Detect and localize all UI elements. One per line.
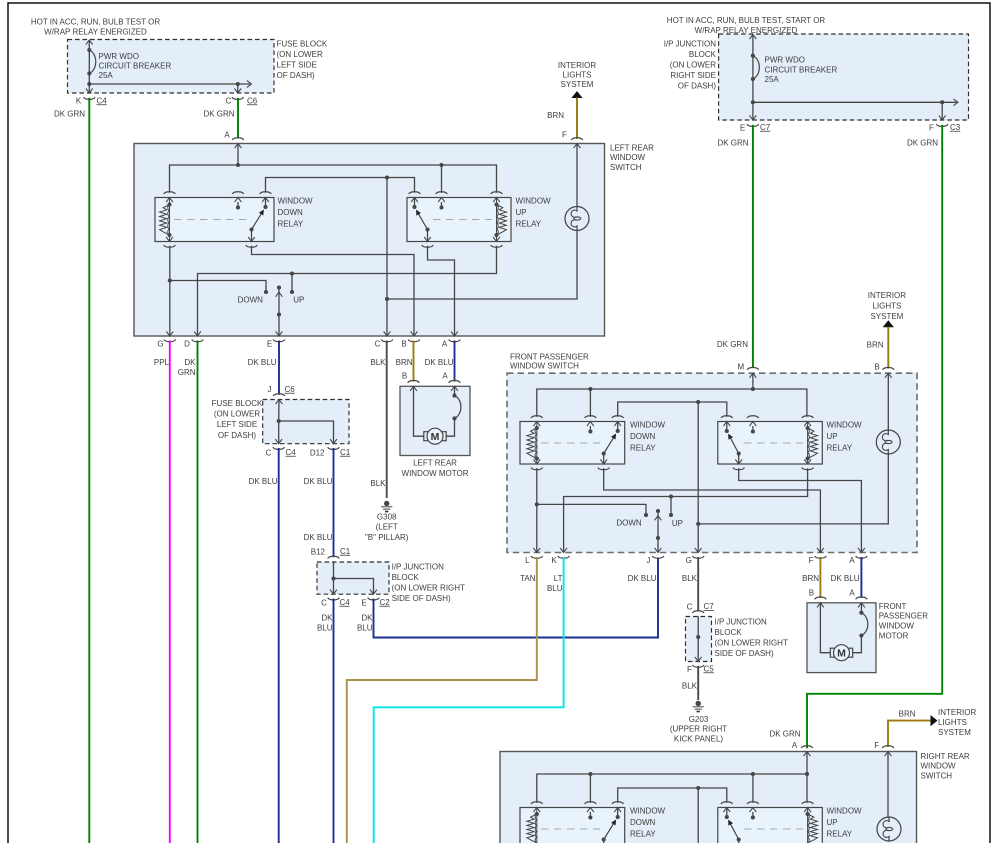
svg-text:E: E bbox=[267, 340, 272, 349]
svg-text:LEFT SIDE: LEFT SIDE bbox=[277, 60, 317, 69]
svg-text:DK BLU: DK BLU bbox=[249, 477, 278, 486]
svg-text:DK BLU: DK BLU bbox=[304, 533, 333, 542]
fuse block (top left, dashed) bbox=[68, 40, 275, 94]
relay pin switch-bottom (left rear up) bbox=[422, 230, 434, 248]
svg-text:B: B bbox=[809, 589, 814, 598]
svg-text:RELAY: RELAY bbox=[827, 829, 853, 838]
relay pin switch-bottom (front passenger down) bbox=[598, 454, 610, 470]
node DOWN feed tap (left rear) bbox=[168, 278, 266, 292]
svg-text:DK BLU: DK BLU bbox=[248, 358, 277, 367]
pin E (left rear switch bottom) bbox=[267, 331, 285, 348]
relay pin switch-bottom (right rear up) bbox=[738, 840, 740, 843]
breaker value label PWR WDO CIRCUIT BREAKER 25A (right) bbox=[765, 55, 838, 84]
svg-text:PWR WDO: PWR WDO bbox=[765, 55, 805, 64]
wire motor B side (left rear) bbox=[414, 386, 425, 436]
svg-text:DK: DK bbox=[321, 613, 333, 622]
svg-text:RIGHT REAR: RIGHT REAR bbox=[921, 752, 970, 761]
wire DK BLU C4 to page bottom bbox=[249, 448, 279, 843]
svg-text:(ON LOWER RIGHT: (ON LOWER RIGHT bbox=[392, 583, 465, 592]
svg-text:A: A bbox=[849, 556, 855, 565]
wire drop to connector C3 bbox=[939, 102, 946, 120]
svg-text:C4: C4 bbox=[97, 96, 108, 105]
pin F (front passenger switch bottom) bbox=[808, 548, 826, 565]
window down relay label (right rear) bbox=[630, 806, 666, 838]
connector C7 pin C (junction right top) bbox=[687, 602, 715, 621]
relay pin coil-top (front passenger down) bbox=[531, 416, 543, 426]
svg-text:FUSE BLOCK: FUSE BLOCK bbox=[212, 399, 263, 408]
wire drop to connector C7 bbox=[750, 102, 757, 120]
svg-text:DOWN: DOWN bbox=[630, 432, 656, 441]
svg-text:(ON LOWER: (ON LOWER bbox=[277, 50, 323, 59]
svg-text:WINDOW: WINDOW bbox=[827, 806, 863, 815]
motor M front passenger bbox=[830, 645, 852, 661]
relay coil (front passenger down) bbox=[527, 422, 539, 465]
contact DOWN (front passenger) bbox=[616, 513, 648, 527]
breaker value label PWR WDO CIRCUIT BREAKER 25A (left) bbox=[99, 52, 172, 80]
relay pin middle (right rear up) bbox=[747, 802, 759, 820]
svg-text:RELAY: RELAY bbox=[630, 443, 656, 452]
svg-text:E: E bbox=[361, 598, 366, 607]
I/P junction block (top right, dashed) bbox=[719, 34, 969, 120]
relay pin coil-top (left rear down) bbox=[164, 192, 176, 202]
svg-text:A: A bbox=[849, 589, 855, 598]
wire DK BLU D12/C1 to junction block bbox=[304, 448, 334, 557]
relay switch arm (right rear up) bbox=[725, 815, 741, 842]
svg-text:RIGHT SIDE: RIGHT SIDE bbox=[670, 71, 716, 80]
svg-text:BRN: BRN bbox=[547, 111, 564, 120]
pin G (left rear switch bottom) bbox=[157, 331, 175, 348]
svg-text:25A: 25A bbox=[765, 75, 780, 84]
svg-text:RELAY: RELAY bbox=[516, 219, 542, 228]
svg-text:BLOCK: BLOCK bbox=[689, 50, 717, 59]
wire drop to connector C4 bbox=[86, 84, 93, 93]
hot feed label (top left) bbox=[31, 17, 161, 36]
svg-text:C4: C4 bbox=[340, 598, 351, 607]
wire BRN pin B to motor bbox=[396, 341, 414, 382]
circuit breaker PWR WDO 25A (right) bbox=[751, 54, 759, 105]
wire down-switch to pin F (front passenger) bbox=[604, 468, 821, 552]
svg-text:LEFT REAR: LEFT REAR bbox=[413, 458, 457, 467]
wire drop to C4 exit (junction middle) bbox=[330, 579, 337, 595]
motor pin A (front passenger) bbox=[849, 589, 867, 608]
svg-text:SYSTEM: SYSTEM bbox=[870, 312, 903, 321]
pin L (front passenger switch bottom) bbox=[525, 548, 543, 565]
svg-text:SWITCH: SWITCH bbox=[610, 163, 642, 172]
connector C2 pin E (junction middle bottom) bbox=[361, 598, 390, 608]
relay switch arm (front passenger down) bbox=[602, 429, 620, 456]
svg-text:L: L bbox=[525, 556, 530, 565]
relay pin switch-top (right rear up) bbox=[721, 802, 733, 817]
bus wire switch commons (right rear) bbox=[618, 788, 727, 803]
wire LT BLU pin K to page bottom bbox=[374, 557, 564, 843]
wire BLK C5 to ground G203 bbox=[682, 666, 698, 700]
svg-text:DOWN: DOWN bbox=[238, 295, 264, 304]
svg-text:UP: UP bbox=[827, 818, 838, 827]
node bus2 tap to pin C (left rear) bbox=[385, 175, 389, 336]
svg-text:F: F bbox=[929, 123, 934, 132]
node feed junction at C3 drop bbox=[940, 100, 944, 104]
svg-text:C1: C1 bbox=[340, 448, 351, 457]
wire DK BLU junction C4 to page bottom bbox=[317, 599, 334, 843]
wire BRN pin F to motor bbox=[802, 557, 820, 598]
svg-text:E: E bbox=[740, 123, 745, 132]
svg-text:C: C bbox=[375, 340, 381, 349]
svg-text:GRN: GRN bbox=[178, 368, 196, 377]
svg-text:UP: UP bbox=[516, 208, 527, 217]
svg-text:DK GRN: DK GRN bbox=[203, 109, 234, 118]
pin D (left rear switch bottom) bbox=[184, 331, 203, 348]
svg-text:SIDE OF DASH): SIDE OF DASH) bbox=[392, 594, 451, 603]
node junction block tap (middle) bbox=[331, 576, 376, 594]
svg-text:LT: LT bbox=[554, 574, 563, 583]
svg-text:LIGHTS: LIGHTS bbox=[563, 70, 592, 79]
svg-text:DOWN: DOWN bbox=[630, 818, 656, 827]
wire DK BLU C2 to front passenger pin J bbox=[357, 558, 658, 638]
pin M (front passenger top) bbox=[717, 340, 759, 389]
svg-text:TAN: TAN bbox=[520, 574, 536, 583]
svg-text:F: F bbox=[562, 131, 567, 140]
window up relay box (left rear) bbox=[407, 198, 511, 242]
svg-text:WINDOW: WINDOW bbox=[610, 153, 646, 162]
relay pin coil-bottom (left rear up) bbox=[491, 237, 503, 247]
relay pin middle (right rear down) bbox=[585, 802, 597, 820]
svg-text:G203: G203 bbox=[689, 715, 709, 724]
svg-text:BLOCK: BLOCK bbox=[392, 573, 420, 582]
wire BLK pin C to ground G308 bbox=[370, 341, 386, 499]
relay pin switch-top (front passenger down) bbox=[612, 416, 624, 431]
svg-text:PASSENGER: PASSENGER bbox=[879, 612, 928, 621]
svg-text:A: A bbox=[442, 340, 448, 349]
motor pin A (left rear) bbox=[442, 372, 460, 391]
window down relay box (front passenger) bbox=[520, 422, 625, 465]
svg-text:J: J bbox=[647, 556, 651, 565]
svg-text:C: C bbox=[266, 448, 272, 457]
node lamp tap on pin G wire (front passenger) bbox=[696, 522, 700, 526]
relay mech link (front passenger down) bbox=[541, 442, 600, 444]
relay mech link (left rear up) bbox=[433, 219, 492, 221]
svg-text:G: G bbox=[686, 556, 692, 565]
pin A (right rear switch top) bbox=[792, 741, 813, 774]
svg-text:LIGHTS: LIGHTS bbox=[872, 301, 901, 310]
node UP contact tap (left rear) bbox=[290, 271, 294, 292]
bus wire switch commons (left rear) bbox=[266, 178, 415, 193]
svg-text:25A: 25A bbox=[99, 71, 114, 80]
relay pin switch-bottom (front passenger up) bbox=[733, 454, 745, 470]
svg-text:LIGHTS: LIGHTS bbox=[938, 718, 967, 727]
relay coil (front passenger up) bbox=[806, 422, 818, 465]
relay pin middle (left rear up) bbox=[436, 192, 448, 210]
wire up-switch to pin A (left rear) bbox=[428, 246, 455, 336]
relay switch arm (front passenger up) bbox=[725, 429, 741, 456]
svg-text:INTERIOR: INTERIOR bbox=[558, 61, 596, 70]
left rear window motor label bbox=[402, 458, 469, 478]
pin J (front passenger switch bottom) bbox=[647, 548, 664, 565]
pin F (left rear switch top) bbox=[562, 131, 583, 208]
bus wire switch commons (front passenger) bbox=[618, 402, 727, 417]
relay pin middle (front passenger up) bbox=[747, 416, 759, 434]
svg-text:OF DASH): OF DASH) bbox=[678, 81, 717, 90]
svg-text:UP: UP bbox=[827, 432, 838, 441]
wire BRN pin B to interior lights (middle) bbox=[867, 320, 894, 368]
wire inside fuse block bbox=[278, 400, 280, 422]
svg-text:HOT IN ACC, RUN, BULB TEST OR: HOT IN ACC, RUN, BULB TEST OR bbox=[31, 17, 161, 26]
bus wire coil feed (left rear) bbox=[170, 165, 497, 193]
svg-text:C7: C7 bbox=[760, 123, 771, 132]
feed arrow into breaker (right) bbox=[750, 35, 757, 103]
relay coil (right rear down) bbox=[527, 808, 539, 843]
wire down-coil to pin L (front passenger) bbox=[536, 468, 538, 552]
pin C (left rear switch bottom) bbox=[375, 331, 393, 348]
right rear window switch label bbox=[921, 752, 970, 780]
connector C1 pin D12 (fuse block bottom) bbox=[310, 447, 351, 457]
svg-text:BRN: BRN bbox=[396, 358, 413, 367]
svg-text:"B" PILLAR): "B" PILLAR) bbox=[365, 533, 409, 542]
svg-text:C5: C5 bbox=[704, 664, 715, 673]
wire down-coil to pin G (left rear) bbox=[169, 246, 171, 336]
relay mech link (left rear down) bbox=[174, 219, 248, 221]
node bus2 tap to pin G (right rear) bbox=[696, 786, 700, 843]
relay coil (left rear down) bbox=[160, 198, 172, 242]
wire lamp bottom to pin C vertical (left rear) bbox=[387, 230, 577, 300]
svg-text:RELAY: RELAY bbox=[630, 829, 656, 838]
svg-text:F: F bbox=[808, 556, 813, 565]
connector C6 pin C bbox=[226, 96, 258, 105]
wire PPL pin G to page bottom bbox=[154, 341, 170, 843]
svg-text:C6: C6 bbox=[247, 96, 258, 105]
connector C7 pin E bbox=[740, 123, 771, 133]
node bus2 tap to pin G (front passenger) bbox=[696, 400, 700, 553]
relay pin coil-top (right rear up) bbox=[802, 802, 814, 812]
window up relay label (front passenger) bbox=[827, 420, 863, 452]
pin K (front passenger switch bottom) bbox=[551, 548, 569, 565]
wire up-switch to pin A (front passenger) bbox=[739, 468, 862, 552]
down/up switch arm (left rear) bbox=[276, 285, 283, 336]
svg-text:C4: C4 bbox=[286, 448, 297, 457]
svg-text:C: C bbox=[321, 598, 327, 607]
svg-text:A: A bbox=[224, 131, 230, 140]
svg-text:BLK: BLK bbox=[370, 479, 386, 488]
svg-text:BLU: BLU bbox=[547, 584, 563, 593]
svg-text:BRN: BRN bbox=[867, 341, 884, 350]
left rear window switch label bbox=[610, 143, 654, 171]
feed arrow into breaker bbox=[86, 40, 93, 84]
svg-text:A: A bbox=[792, 741, 798, 750]
svg-text:DOWN: DOWN bbox=[616, 518, 642, 527]
wire DK BLU pin J label bbox=[628, 574, 657, 583]
svg-text:BLU: BLU bbox=[317, 623, 333, 632]
ground G308 bbox=[365, 501, 409, 542]
svg-text:B: B bbox=[401, 340, 406, 349]
wire lamp bottom to pin G vertical (front passenger) bbox=[698, 453, 888, 524]
svg-text:J: J bbox=[268, 385, 272, 394]
svg-text:DOWN: DOWN bbox=[278, 208, 304, 217]
wire breaker output to C6 (feed bus) bbox=[89, 81, 251, 88]
connector C4 pin K bbox=[76, 96, 107, 105]
svg-text:DK GRN: DK GRN bbox=[769, 730, 800, 739]
svg-text:D: D bbox=[184, 340, 190, 349]
relay switch arm (left rear down) bbox=[249, 205, 267, 232]
svg-text:CIRCUIT BREAKER: CIRCUIT BREAKER bbox=[99, 61, 172, 70]
I/P junction block (right, dashed) bbox=[686, 617, 712, 662]
svg-text:C: C bbox=[226, 97, 232, 106]
svg-text:C3: C3 bbox=[950, 123, 961, 132]
wire BRN pin F to interior lights (right) bbox=[888, 710, 938, 747]
node bus1 x down relay middle (front passenger) bbox=[588, 387, 592, 417]
svg-text:(ON LOWER: (ON LOWER bbox=[214, 409, 260, 418]
relay pin coil-top (right rear down) bbox=[531, 802, 543, 812]
wire DK GRN C4 to page bottom bbox=[54, 98, 89, 843]
svg-text:WINDOW: WINDOW bbox=[516, 196, 552, 205]
svg-text:B: B bbox=[402, 372, 407, 381]
wire down-switch to pin B (left rear) bbox=[252, 246, 415, 336]
motor thermal breaker (front passenger) bbox=[859, 611, 867, 638]
wire breaker output to C3 (feed bus right) bbox=[753, 99, 958, 106]
svg-text:I/P JUNCTION: I/P JUNCTION bbox=[715, 617, 768, 626]
svg-text:F: F bbox=[687, 665, 692, 674]
relay pin switch-top (left rear up) bbox=[409, 192, 421, 207]
fuse block label (top left) bbox=[277, 39, 328, 80]
svg-text:D12: D12 bbox=[310, 448, 325, 457]
contact UP (left rear) bbox=[290, 290, 304, 305]
left rear window motor box bbox=[400, 386, 470, 455]
svg-text:RELAY: RELAY bbox=[827, 443, 853, 452]
window up relay label (left rear) bbox=[516, 196, 552, 228]
svg-text:WINDOW: WINDOW bbox=[879, 621, 915, 630]
window up relay label (right rear) bbox=[827, 806, 863, 838]
svg-text:WINDOW: WINDOW bbox=[921, 762, 957, 771]
svg-text:BLK: BLK bbox=[682, 681, 698, 690]
interior lights system label (middle) bbox=[868, 291, 906, 321]
svg-text:C6: C6 bbox=[285, 385, 296, 394]
svg-text:FUSE BLOCK: FUSE BLOCK bbox=[277, 39, 328, 48]
node bus1 x pin A (left rear) bbox=[236, 163, 240, 167]
svg-text:FRONT: FRONT bbox=[879, 602, 907, 611]
hot feed label (top right) bbox=[667, 16, 826, 35]
motor pin B (front passenger) bbox=[809, 589, 826, 608]
wire BRN pin F to interior lights (left) bbox=[547, 91, 582, 139]
svg-text:SWITCH: SWITCH bbox=[921, 771, 953, 780]
svg-text:DK GRN: DK GRN bbox=[54, 109, 85, 118]
svg-text:(UPPER RIGHT: (UPPER RIGHT bbox=[670, 725, 727, 734]
svg-text:(ON LOWER RIGHT: (ON LOWER RIGHT bbox=[715, 638, 788, 647]
pin G (front passenger switch bottom) bbox=[686, 548, 704, 565]
wire motor B side (front passenger) bbox=[820, 603, 830, 653]
connector C1 pin B12 (junction block top) bbox=[311, 547, 351, 567]
node feed junction at C6 drop bbox=[236, 82, 240, 86]
svg-text:UP: UP bbox=[672, 519, 683, 528]
svg-text:M: M bbox=[737, 362, 744, 371]
window down relay label (front passenger) bbox=[630, 420, 666, 452]
svg-text:MOTOR: MOTOR bbox=[879, 631, 909, 640]
node lamp tap on pin C wire (left rear) bbox=[385, 297, 389, 301]
node bus1 x up relay middle (left rear) bbox=[439, 163, 443, 193]
svg-text:(LEFT: (LEFT bbox=[376, 522, 398, 531]
svg-text:DK GRN: DK GRN bbox=[717, 138, 748, 147]
pin B (front passenger top) bbox=[874, 362, 894, 431]
svg-text:I/P JUNCTION: I/P JUNCTION bbox=[392, 562, 445, 571]
svg-text:CIRCUIT BREAKER: CIRCUIT BREAKER bbox=[765, 65, 838, 74]
relay mech link (right rear down) bbox=[541, 828, 600, 830]
svg-text:C7: C7 bbox=[704, 602, 715, 611]
relay pin switch-top (front passenger up) bbox=[721, 416, 733, 431]
svg-text:UP: UP bbox=[293, 296, 304, 305]
svg-text:INTERIOR: INTERIOR bbox=[868, 291, 906, 300]
pin A (front passenger switch bottom) bbox=[849, 548, 867, 565]
wire DK GRN C6 to pin A bbox=[203, 98, 238, 139]
relay mech link (front passenger up) bbox=[744, 442, 803, 444]
bus wire coil feed (front passenger) bbox=[537, 389, 807, 417]
relay pin coil-bottom (front passenger down) bbox=[531, 459, 543, 469]
front passenger window switch box (dashed) bbox=[507, 373, 917, 552]
node UP contact tap (front passenger) bbox=[669, 494, 673, 515]
window up relay box (front passenger) bbox=[718, 422, 823, 465]
svg-text:BLK: BLK bbox=[370, 358, 386, 367]
svg-text:DK GRN: DK GRN bbox=[717, 340, 748, 349]
relay pin middle (front passenger down) bbox=[585, 416, 597, 434]
node fuse block junction bbox=[277, 419, 337, 444]
window down relay label (left rear) bbox=[278, 196, 314, 228]
relay switch arm (right rear down) bbox=[602, 815, 620, 842]
svg-text:DK: DK bbox=[184, 358, 196, 367]
wire DK BLU pin A to motor bbox=[425, 341, 455, 382]
connector C4 pin C (junction middle bottom) bbox=[321, 598, 350, 608]
relay pin coil-bottom (front passenger up) bbox=[802, 459, 814, 469]
node bus1 x pin A (right rear) bbox=[805, 772, 809, 776]
pin A (left rear switch bottom) bbox=[442, 331, 460, 348]
relay pin switch-top (right rear down) bbox=[612, 802, 624, 817]
svg-text:BRN: BRN bbox=[899, 710, 916, 719]
svg-text:SIDE OF DASH): SIDE OF DASH) bbox=[715, 649, 774, 658]
fuse block (middle left, dashed) bbox=[263, 400, 349, 444]
contact DOWN (left rear) bbox=[238, 290, 268, 304]
svg-text:BLU: BLU bbox=[357, 623, 373, 632]
wire motor A side (front passenger) bbox=[853, 603, 862, 653]
svg-text:DK BLU: DK BLU bbox=[831, 574, 860, 583]
bus wire coil feed (right rear) bbox=[537, 774, 807, 803]
wire DK BLU pin A to motor bbox=[831, 557, 862, 598]
connector C4 pin C (fuse block bottom) bbox=[266, 447, 297, 457]
down/up switch arm (front passenger) bbox=[655, 509, 662, 553]
fuse block label (middle left) bbox=[212, 399, 263, 440]
ground G203 bbox=[670, 701, 727, 744]
relay coil (right rear up) bbox=[806, 808, 818, 843]
svg-text:C: C bbox=[687, 603, 693, 612]
interior lights system label (left) bbox=[558, 61, 596, 89]
pin A (left rear switch top) bbox=[224, 131, 243, 165]
motor pin B (left rear) bbox=[402, 372, 419, 391]
svg-text:FRONT PASSENGER: FRONT PASSENGER bbox=[510, 352, 589, 361]
wire inside junction block (right) bbox=[695, 617, 702, 662]
relay pin switch-top (left rear down) bbox=[260, 192, 272, 207]
wire up-coil to pin K (front passenger) bbox=[564, 468, 808, 552]
wire DK GRN pin D to page bottom bbox=[178, 341, 198, 843]
svg-text:G308: G308 bbox=[377, 512, 397, 521]
svg-text:M: M bbox=[837, 648, 846, 660]
svg-text:A: A bbox=[442, 372, 448, 381]
I/P junction block label (right) bbox=[715, 617, 788, 658]
svg-text:K: K bbox=[76, 97, 82, 106]
lamp (left rear switch) bbox=[565, 207, 589, 231]
node bus1 x down relay middle (right rear) bbox=[588, 772, 592, 803]
window down relay box (left rear) bbox=[155, 198, 274, 242]
svg-text:BLK: BLK bbox=[682, 574, 698, 583]
wire motor A side (left rear) bbox=[446, 386, 455, 436]
svg-text:KICK PANEL): KICK PANEL) bbox=[674, 734, 724, 743]
front passenger window switch label bbox=[510, 352, 589, 370]
svg-text:C1: C1 bbox=[340, 547, 351, 556]
connector C3 pin F bbox=[929, 123, 961, 133]
wire TAN pin L to page bottom bbox=[347, 557, 537, 843]
